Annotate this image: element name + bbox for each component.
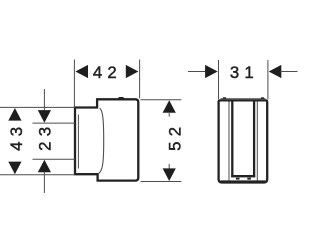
dim 23 lower arrow + stub (38, 160, 51, 173)
front view: thin top line (221, 98, 266, 100)
dim 42: extension lines (73, 60, 75, 108)
inner plate line (77, 115, 79, 169)
dim 42 arrows (75, 65, 88, 78)
front view: bottom dashes (236, 178, 240, 180)
dim 23 upper stub + arrow (43, 89, 45, 110)
dim 31 left arrow + stub (188, 71, 206, 73)
front view: bottom bar inner thickening (221, 180, 266, 182)
svg-text:23: 23 (36, 122, 55, 151)
bump on top of body (117, 97, 125, 99)
front view: thin inner verticals (228, 102, 230, 182)
front view: cup bottom bar (231, 175, 255, 177)
dim 43: extension lines (0, 106, 75, 108)
front view: top nubs (223, 97, 226, 99)
dim 52: extension lines (141, 99, 182, 101)
side view: holder body + wall plate outline (75, 99, 138, 180)
dim 52 arrows (163, 100, 176, 113)
front view: cup thick verticals (231, 102, 233, 178)
svg-text:52: 52 (166, 122, 185, 151)
curved face line (99, 108, 104, 173)
front view: outer rect (219, 100, 268, 182)
svg-text:31: 31 (230, 63, 259, 82)
dim 23: extension lines (33, 122, 75, 124)
svg-text:43: 43 (7, 122, 26, 151)
dim 43 arrows (8, 108, 21, 121)
dim 31 right arrow + stub (269, 65, 282, 78)
dim 31: extension lines (218, 60, 220, 99)
svg-text:42: 42 (93, 63, 122, 82)
dim 52 line stubs (168, 113, 170, 117)
